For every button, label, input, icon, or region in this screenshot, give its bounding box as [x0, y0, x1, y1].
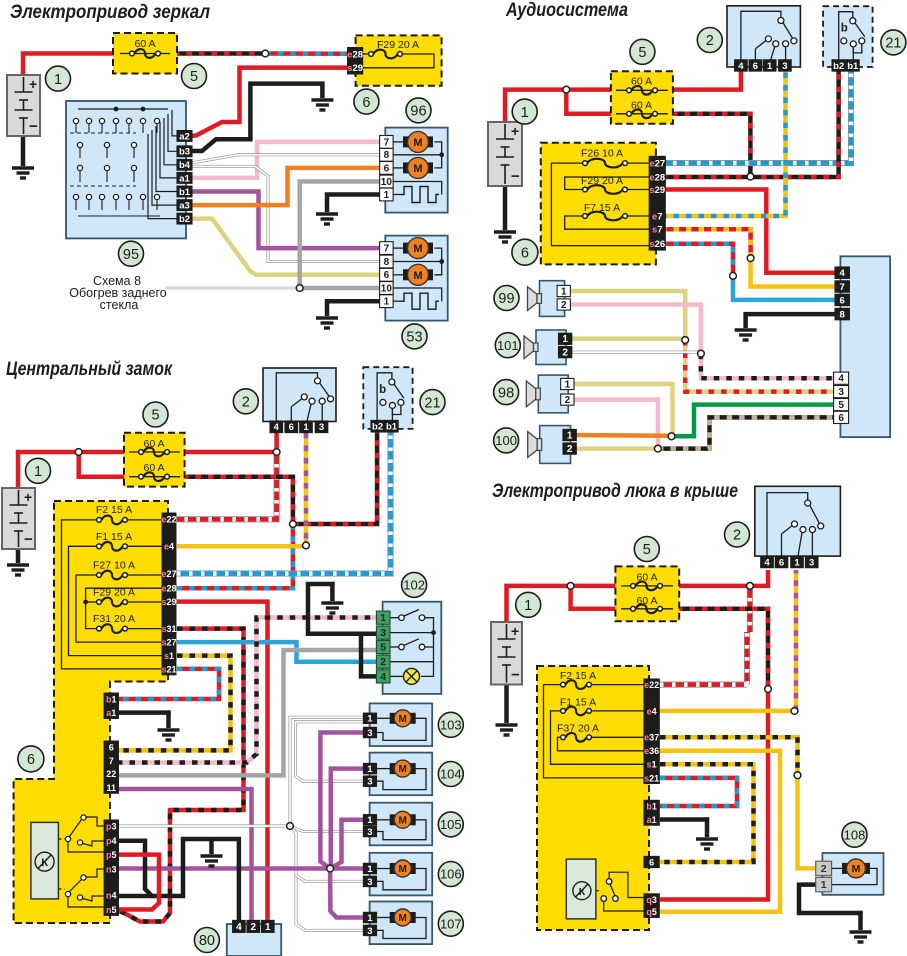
svg-text:4: 4: [236, 922, 242, 933]
svg-text:e4: e4: [647, 706, 657, 716]
svg-text:98: 98: [498, 385, 514, 401]
svg-text:стекла: стекла: [100, 298, 139, 312]
svg-text:99: 99: [498, 291, 514, 307]
svg-text:e27: e27: [649, 159, 665, 170]
svg-text:b2: b2: [372, 422, 383, 433]
svg-text:53: 53: [406, 330, 422, 346]
svg-text:F27 10 A: F27 10 A: [93, 560, 135, 572]
svg-text:b1: b1: [386, 422, 398, 433]
svg-text:6: 6: [521, 245, 529, 261]
svg-text:3: 3: [367, 827, 372, 838]
svg-text:n5: n5: [106, 905, 117, 915]
svg-text:11: 11: [107, 783, 117, 793]
svg-text:5: 5: [190, 69, 198, 85]
svg-text:b2: b2: [833, 61, 844, 72]
svg-text:−: −: [24, 531, 33, 548]
svg-text:b3: b3: [179, 147, 190, 158]
svg-text:3: 3: [782, 61, 787, 72]
svg-text:b1: b1: [646, 801, 657, 811]
svg-text:p4: p4: [106, 836, 117, 846]
svg-text:8: 8: [384, 257, 390, 268]
svg-text:107: 107: [440, 916, 462, 931]
svg-text:7: 7: [384, 244, 390, 255]
svg-text:1: 1: [367, 815, 373, 826]
svg-text:2: 2: [242, 395, 250, 411]
svg-text:+: +: [24, 489, 32, 505]
svg-text:2: 2: [561, 300, 567, 311]
svg-text:e36: e36: [644, 746, 659, 756]
svg-text:q3: q3: [646, 895, 657, 905]
svg-text:p5: p5: [106, 850, 117, 860]
svg-text:s7: s7: [652, 225, 663, 236]
svg-text:s21: s21: [644, 773, 659, 783]
svg-text:2: 2: [565, 395, 571, 406]
svg-text:M: M: [413, 243, 422, 255]
svg-text:4: 4: [840, 268, 846, 279]
svg-text:6: 6: [753, 61, 758, 72]
svg-text:6: 6: [289, 422, 294, 433]
svg-text:1: 1: [380, 612, 386, 624]
svg-text:96: 96: [410, 104, 426, 120]
svg-text:22: 22: [106, 769, 116, 779]
svg-text:80: 80: [199, 933, 215, 949]
svg-text:F2 15 A: F2 15 A: [96, 504, 132, 516]
svg-text:Аудиосистема: Аудиосистема: [505, 0, 628, 21]
svg-text:b: b: [379, 384, 386, 396]
svg-text:3: 3: [367, 877, 372, 888]
svg-text:1: 1: [367, 714, 373, 725]
svg-text:1: 1: [367, 913, 373, 924]
svg-text:1: 1: [521, 105, 529, 121]
svg-text:2: 2: [562, 348, 568, 359]
svg-text:−: −: [511, 667, 520, 684]
svg-text:e4: e4: [164, 542, 174, 552]
svg-text:1: 1: [567, 430, 573, 441]
svg-text:101: 101: [497, 338, 519, 353]
svg-text:s21: s21: [161, 664, 176, 674]
svg-text:3: 3: [367, 777, 372, 788]
svg-text:К: К: [41, 857, 48, 869]
svg-text:1: 1: [821, 879, 827, 891]
svg-text:a3: a3: [179, 201, 190, 212]
svg-text:4: 4: [838, 374, 844, 385]
svg-text:5: 5: [151, 408, 159, 424]
svg-text:b1: b1: [179, 187, 191, 198]
svg-text:6: 6: [362, 95, 370, 111]
svg-text:b1: b1: [847, 61, 859, 72]
svg-text:s29: s29: [347, 63, 363, 74]
svg-text:21: 21: [424, 395, 440, 411]
svg-text:1: 1: [34, 464, 42, 480]
svg-text:b1: b1: [106, 694, 117, 704]
svg-text:+: +: [511, 123, 519, 139]
svg-text:3: 3: [809, 557, 814, 568]
svg-text:5: 5: [643, 542, 651, 558]
svg-text:60 A: 60 A: [631, 76, 652, 88]
svg-text:1: 1: [54, 72, 62, 88]
svg-text:M: M: [399, 815, 407, 826]
svg-text:+: +: [29, 76, 37, 92]
svg-text:6: 6: [109, 742, 114, 752]
svg-text:1: 1: [524, 598, 532, 614]
svg-text:7: 7: [840, 282, 845, 293]
svg-text:1: 1: [384, 190, 390, 201]
svg-text:M: M: [399, 714, 407, 725]
svg-text:q5: q5: [646, 907, 657, 917]
svg-text:3: 3: [838, 387, 844, 398]
svg-text:7: 7: [384, 137, 390, 148]
svg-text:6: 6: [838, 413, 844, 424]
svg-text:21: 21: [885, 36, 901, 52]
svg-text:6: 6: [384, 163, 390, 174]
svg-text:2: 2: [706, 33, 714, 49]
svg-text:1: 1: [794, 557, 800, 568]
svg-text:6: 6: [840, 295, 845, 306]
svg-text:F1 15 A: F1 15 A: [96, 531, 132, 543]
svg-text:a1: a1: [179, 173, 190, 184]
svg-text:s1: s1: [164, 651, 174, 661]
svg-text:106: 106: [440, 867, 462, 882]
svg-text:a2: a2: [179, 131, 190, 142]
svg-text:e27: e27: [161, 569, 176, 579]
svg-text:s26: s26: [649, 239, 665, 250]
svg-text:7: 7: [109, 756, 114, 766]
svg-text:3: 3: [319, 422, 324, 433]
svg-text:e22: e22: [161, 515, 176, 525]
svg-text:M: M: [413, 137, 422, 149]
svg-text:4: 4: [274, 422, 280, 433]
svg-text:M: M: [852, 863, 861, 875]
svg-text:2: 2: [380, 656, 386, 668]
svg-text:Электропривод люка в крыше: Электропривод люка в крыше: [492, 481, 738, 502]
svg-text:6: 6: [779, 557, 784, 568]
svg-text:1: 1: [265, 922, 271, 933]
svg-text:5: 5: [838, 400, 844, 411]
svg-text:10: 10: [381, 283, 393, 294]
svg-text:n3: n3: [106, 864, 117, 874]
svg-text:p3: p3: [106, 821, 117, 831]
svg-text:10: 10: [381, 177, 393, 188]
svg-text:95: 95: [123, 247, 139, 263]
svg-text:4: 4: [738, 61, 744, 72]
svg-text:1: 1: [562, 334, 568, 345]
svg-text:s29: s29: [649, 185, 665, 196]
svg-text:6: 6: [27, 752, 35, 768]
svg-text:2: 2: [821, 863, 827, 875]
svg-text:1: 1: [565, 379, 571, 390]
svg-text:e37: e37: [644, 733, 659, 743]
svg-text:8: 8: [384, 150, 390, 161]
svg-text:102: 102: [403, 578, 425, 593]
svg-text:104: 104: [440, 767, 462, 782]
svg-text:1: 1: [384, 297, 390, 308]
svg-text:+: +: [511, 623, 519, 639]
svg-text:5: 5: [638, 45, 646, 61]
svg-text:M: M: [413, 163, 422, 175]
svg-text:b4: b4: [179, 160, 191, 171]
svg-text:3: 3: [367, 926, 372, 937]
svg-text:−: −: [511, 168, 520, 185]
svg-text:4: 4: [380, 671, 386, 683]
svg-text:a1: a1: [647, 815, 657, 825]
svg-text:105: 105: [440, 817, 462, 832]
svg-text:103: 103: [440, 717, 462, 732]
svg-text:s29: s29: [161, 597, 176, 607]
svg-text:5: 5: [380, 641, 386, 653]
svg-text:M: M: [413, 270, 422, 282]
svg-text:6: 6: [384, 270, 390, 281]
svg-text:1: 1: [367, 764, 373, 775]
svg-text:M: M: [399, 913, 407, 924]
svg-text:F31 20 A: F31 20 A: [93, 613, 135, 625]
svg-text:Электропривод зеркал: Электропривод зеркал: [10, 2, 210, 23]
svg-text:b2: b2: [179, 214, 190, 225]
svg-text:1: 1: [303, 422, 309, 433]
svg-text:100: 100: [495, 433, 517, 448]
svg-text:M: M: [399, 864, 407, 875]
svg-text:−: −: [29, 118, 38, 135]
svg-text:e28: e28: [347, 49, 363, 60]
svg-text:6: 6: [649, 857, 654, 867]
svg-text:2: 2: [733, 528, 741, 544]
svg-text:F1 15 A: F1 15 A: [560, 697, 596, 709]
svg-text:К: К: [579, 886, 586, 898]
svg-text:2: 2: [251, 922, 257, 933]
svg-text:3: 3: [367, 728, 372, 739]
svg-text:s31: s31: [161, 624, 176, 634]
svg-text:n4: n4: [106, 890, 117, 900]
svg-text:F26 10 A: F26 10 A: [581, 148, 623, 160]
svg-text:1: 1: [367, 864, 373, 875]
svg-text:60 A: 60 A: [134, 38, 155, 50]
svg-text:2: 2: [567, 444, 573, 455]
svg-text:M: M: [399, 764, 407, 775]
svg-text:e22: e22: [644, 680, 659, 690]
svg-text:F2 15 A: F2 15 A: [560, 670, 596, 682]
svg-text:e28: e28: [649, 172, 665, 183]
svg-text:e28: e28: [161, 584, 176, 594]
svg-text:1: 1: [767, 61, 773, 72]
svg-text:s27: s27: [161, 638, 176, 648]
svg-text:1: 1: [561, 286, 567, 297]
svg-text:Центральный замок: Центральный замок: [6, 359, 173, 380]
svg-text:F37 20 A: F37 20 A: [557, 723, 599, 735]
svg-text:a1: a1: [106, 708, 116, 718]
svg-text:8: 8: [840, 310, 845, 321]
svg-text:108: 108: [844, 827, 866, 842]
svg-text:b: b: [841, 23, 848, 35]
svg-text:e7: e7: [652, 211, 663, 222]
svg-text:s1: s1: [647, 760, 657, 770]
svg-text:3: 3: [380, 627, 386, 639]
svg-text:4: 4: [764, 557, 770, 568]
